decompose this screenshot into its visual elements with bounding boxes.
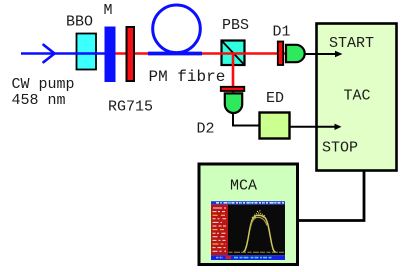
- detector D1: [286, 45, 305, 62]
- svg-text:PBS: PBS: [222, 17, 249, 34]
- red panel text rows: [213, 208, 227, 251]
- title bar text specks: [216, 202, 284, 204]
- histogram peak inner noise trace: [251, 217, 267, 227]
- wire: D2 down: [233, 112, 259, 126]
- MCA box: [199, 164, 298, 265]
- screenshot red side panel: [211, 205, 228, 256]
- ED box: [260, 113, 290, 139]
- svg-text:D1: D1: [273, 24, 291, 41]
- arrowhead START: [335, 51, 343, 58]
- wire: red beam down to D2: [232, 54, 235, 95]
- histogram peak trace: [244, 215, 276, 252]
- screenshot title bar: [211, 201, 285, 204]
- svg-text:458 nm: 458 nm: [12, 92, 66, 109]
- svg-text:ED: ED: [266, 90, 284, 107]
- TAC box: [317, 24, 397, 171]
- svg-text:START: START: [329, 35, 374, 52]
- screenshot status bar: [211, 255, 285, 260]
- svg-text:M: M: [104, 2, 113, 19]
- svg-text:PM fibre: PM fibre: [149, 68, 226, 86]
- filter at D2: [221, 87, 245, 91]
- peak speckle: [249, 210, 269, 229]
- svg-text:CW pump: CW pump: [12, 76, 75, 93]
- arrowhead STOP: [335, 124, 342, 130]
- BBO crystal box: [77, 34, 97, 70]
- status bar text specks: [216, 257, 223, 259]
- histogram baseline noise: [229, 251, 285, 253]
- wire: ED to TAC STOP: [290, 126, 336, 128]
- MCA screenshot: [211, 201, 285, 260]
- svg-text:D2: D2: [197, 121, 215, 138]
- svg-text:TAC: TAC: [344, 88, 371, 105]
- PM fibre loop: [153, 5, 201, 53]
- PBS beamsplitter cube: [222, 41, 245, 66]
- filter at D1: [278, 42, 283, 66]
- mirror M: [105, 27, 116, 83]
- wire: red beam to D1: [108, 52, 286, 55]
- screenshot black plot area: [228, 205, 285, 256]
- arrowhead on pump beam: [44, 45, 55, 62]
- wire: blue pump beam: [21, 52, 112, 55]
- wire: TAC to MCA connector: [299, 171, 364, 221]
- shaft START inside box: [317, 53, 337, 55]
- detector D2: [225, 93, 242, 113]
- svg-text:STOP: STOP: [322, 140, 358, 157]
- svg-text:MCA: MCA: [230, 178, 257, 195]
- svg-text:RG715: RG715: [108, 99, 153, 116]
- wire: PM fibre thick blue segment: [148, 52, 202, 56]
- wire: D1 to TAC START: [304, 53, 337, 55]
- svg-text:BBO: BBO: [66, 14, 93, 31]
- filter RG715: [127, 27, 135, 81]
